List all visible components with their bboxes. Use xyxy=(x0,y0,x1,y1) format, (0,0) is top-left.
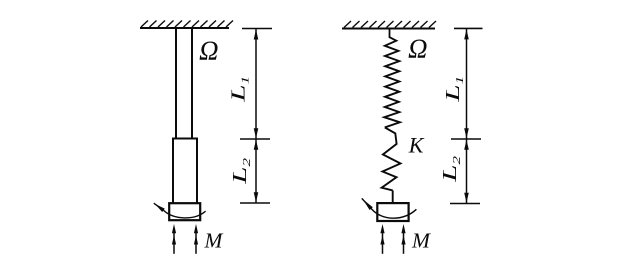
left dimension middle tick xyxy=(240,138,270,140)
right moment double-arrow 1 xyxy=(380,224,384,254)
right ceiling hatching xyxy=(344,21,436,28)
shoulder line between shaft segments xyxy=(172,138,198,140)
right disk xyxy=(377,203,408,221)
label K xyxy=(408,133,425,158)
right dimension arrowheads xyxy=(464,29,469,202)
label L1 (right, rotated) xyxy=(441,76,466,103)
spring bottom stub xyxy=(392,190,394,203)
svg-text:M: M xyxy=(411,228,431,252)
svg-text:L2: L2 xyxy=(438,156,463,183)
left moment double-arrow 2 xyxy=(194,224,198,254)
left dimension arrowheads xyxy=(254,30,259,203)
right dimension middle tick xyxy=(451,138,481,140)
left dimension bottom tick xyxy=(240,202,270,204)
svg-text:L2: L2 xyxy=(228,158,253,185)
left rotation arc arrow xyxy=(154,203,206,218)
left dimension top tick xyxy=(242,28,272,30)
right moment double-arrow 2 xyxy=(401,224,405,254)
right dimension vertical line xyxy=(466,29,468,203)
svg-text:Ω: Ω xyxy=(408,34,428,64)
left ceiling line xyxy=(140,27,229,29)
label L2 (right, rotated) xyxy=(438,156,463,183)
right dimension top tick xyxy=(454,27,483,29)
right dimension bottom tick xyxy=(450,203,480,205)
svg-text:L1: L1 xyxy=(441,76,466,103)
spring top stub xyxy=(389,29,391,39)
thick shaft segment (lower rod) xyxy=(173,139,197,204)
label Omega (left) xyxy=(199,36,219,66)
svg-text:L1: L1 xyxy=(227,76,252,103)
lower loose spring K xyxy=(382,127,401,190)
upper tight spring (Omega section) xyxy=(384,37,400,127)
label M (left) xyxy=(204,229,224,253)
left dimension vertical line xyxy=(255,29,257,203)
right rotation arc arrow xyxy=(362,198,417,218)
thin shaft segment (upper rod) xyxy=(176,28,192,139)
right ceiling line xyxy=(342,28,435,30)
label L2 (left, rotated) xyxy=(228,158,253,185)
svg-text:K: K xyxy=(408,133,425,158)
label Omega (right) xyxy=(408,34,428,64)
left ceiling hatching xyxy=(141,21,233,28)
label L1 (left, rotated) xyxy=(227,76,252,103)
left moment double-arrow 1 xyxy=(172,224,176,254)
svg-text:Ω: Ω xyxy=(199,36,219,66)
left disk xyxy=(169,203,200,220)
svg-text:M: M xyxy=(204,229,224,253)
label M (right) xyxy=(411,228,431,252)
